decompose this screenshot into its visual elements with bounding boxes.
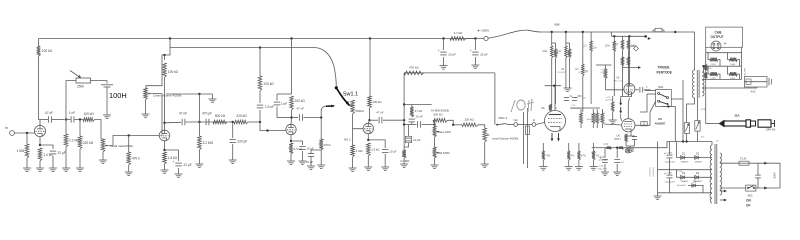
resistor cluster low2 <box>627 57 629 66</box>
capacitor 1n 63V b <box>572 95 582 100</box>
label U6 ANODE <box>658 117 662 121</box>
diode D2 <box>695 152 703 163</box>
terminal heater 1 <box>724 190 727 193</box>
label cab r1 <box>711 64 717 66</box>
wire bus to term <box>466 38 484 40</box>
wire clean wiper right <box>154 94 162 136</box>
node sw3 bottom <box>667 105 669 107</box>
wire lead to switch curve <box>321 106 330 118</box>
label C cap2 <box>599 160 609 162</box>
svg-text:+ C13B: + C13B <box>665 173 673 175</box>
potentiometer 250k box <box>70 71 91 89</box>
ground psu extra <box>609 120 617 124</box>
ground NFB <box>400 164 408 168</box>
diode D3 <box>681 172 689 183</box>
resistor cab 1 <box>710 58 718 62</box>
svg-text:100 kΩ: 100 kΩ <box>83 112 94 116</box>
label psu rot1 <box>650 166 652 176</box>
wire in to U5 grid <box>536 123 545 125</box>
wire cab rail1 <box>706 52 742 54</box>
svg-text:C13: C13 <box>582 46 587 48</box>
wire mini rail 65 <box>596 64 612 66</box>
wire U5 plate up <box>554 86 556 111</box>
wire clean pot gnd <box>145 100 147 115</box>
wire chain7 bot <box>613 52 615 96</box>
svg-text:PIN 1,2,3: PIN 1,2,3 <box>614 80 623 82</box>
svg-text:220k: 220k <box>613 44 619 46</box>
fuse F1 <box>739 158 749 166</box>
svg-text:+ C13A: + C13A <box>665 152 673 155</box>
wire 220pF drop <box>232 122 234 138</box>
wire U6 cathode <box>630 132 632 136</box>
node bus V3 <box>290 37 292 39</box>
wire V4 plate feed <box>369 39 371 97</box>
resistor 2.2M tone <box>198 136 214 150</box>
wire chain pair top <box>552 43 556 46</box>
power subrail <box>612 35 646 37</box>
resistor cab 3 <box>710 72 718 76</box>
wire V2 bypass branch <box>165 150 179 161</box>
wire grid leak drop <box>26 133 28 144</box>
wire chain6 top <box>590 32 592 41</box>
wire out to in <box>518 124 532 126</box>
svg-text:Mid 4/50k: Mid 4/50k <box>438 151 451 155</box>
svg-text:1M: 1M <box>575 69 578 71</box>
resistor U5 aux4 <box>601 113 604 124</box>
wire U6 cath gnd2 <box>634 139 636 146</box>
wire heater tap2 <box>720 199 724 201</box>
label chain6 a <box>582 46 587 48</box>
ground 2.2M tone <box>195 164 203 168</box>
wire OT sec tap1 <box>702 66 706 72</box>
capacitor C13B <box>664 172 673 178</box>
wire 2.2M drop <box>65 120 67 135</box>
label chain7 a <box>605 46 611 48</box>
capacitor 47nF lead couple <box>300 114 303 120</box>
svg-text:47 nF: 47 nF <box>297 107 305 111</box>
wire mains top2 <box>749 163 780 188</box>
node V4 plate <box>368 119 370 121</box>
label U5 top4 <box>571 108 581 110</box>
capacitor 20uF filter1 <box>438 49 456 57</box>
node 470k drop <box>128 134 130 136</box>
svg-text:SW2: SW2 <box>748 196 754 198</box>
wire switch to 500k <box>350 105 353 107</box>
wire cathode res to gnd <box>39 161 41 168</box>
connector XLR J4 <box>711 41 727 51</box>
wire filter1 gnd <box>443 57 445 66</box>
wire cab to aux <box>756 86 758 89</box>
svg-text:UB6: UB6 <box>554 23 560 27</box>
arrows U6 screen <box>619 99 622 114</box>
wire filter cap2 drop <box>474 39 476 51</box>
svg-text:220 kΩ: 220 kΩ <box>83 141 94 145</box>
resistor 1.5k cathode V2 <box>163 152 178 164</box>
wire crossing v2 <box>527 108 529 168</box>
wire subrail drop <box>611 32 613 36</box>
wire PT sec tap1 <box>711 157 712 159</box>
resistor 500k series <box>213 114 227 124</box>
wire U6a grid <box>606 89 624 91</box>
component grid stopper box <box>641 122 647 126</box>
wire U6a cathode <box>621 94 632 99</box>
label cluster mid <box>631 46 637 48</box>
wire rail seg1 <box>52 119 64 121</box>
svg-text:1.5 nF: 1.5 nF <box>265 105 274 109</box>
svg-text:100R: 100R <box>730 78 736 80</box>
resistor cab left b <box>704 73 707 79</box>
svg-text:Bass 4/1M: Bass 4/1M <box>438 130 452 134</box>
heater rail c <box>624 142 713 148</box>
heater rail b <box>612 147 620 149</box>
wire U6a out <box>635 89 639 91</box>
triode V4 <box>363 123 373 133</box>
wire 220pF gnd <box>232 144 234 160</box>
capacitor 1nF bright <box>69 111 75 123</box>
node lead tap <box>320 116 322 118</box>
svg-text:4.7 kΩ: 4.7 kΩ <box>454 31 464 35</box>
wire V1 plate rail <box>40 119 48 121</box>
triode U6a <box>624 84 635 95</box>
wire 47k chain top <box>411 105 413 108</box>
label chain3 b <box>568 53 573 55</box>
wire mains cap dn <box>757 178 759 188</box>
svg-text:OUTPUT: OUTPUT <box>711 35 724 39</box>
wire 2.2M2 drop <box>198 122 200 136</box>
wire lead cap link <box>311 150 321 152</box>
resistor chain8 <box>621 40 623 50</box>
capacitor 22uF cathode bypass <box>50 151 66 155</box>
label +300V <box>481 29 490 33</box>
pentode U5 driver <box>541 106 566 132</box>
clean rail <box>170 47 300 49</box>
svg-text:CAB: CAB <box>715 31 723 35</box>
svg-text:470 k: 470 k <box>324 143 331 147</box>
wire mains bottom2 <box>756 187 780 189</box>
jack Out <box>513 118 518 126</box>
wire V4 plate rail <box>370 119 379 121</box>
capacitor 220pF <box>230 140 248 144</box>
wire chain1 bot <box>551 58 553 108</box>
potentiometer Mid <box>433 147 437 158</box>
wire V4 plate node <box>369 108 371 120</box>
wire NFB rail <box>404 72 495 74</box>
wire 500k down <box>353 114 363 129</box>
box CAB OUTPUT <box>706 27 743 47</box>
wiper lead treble <box>105 145 110 147</box>
wire sw3 bottom tap <box>662 105 675 107</box>
wiper bass <box>436 131 439 133</box>
node V3 cathode <box>290 140 292 142</box>
svg-text:1N4007: 1N4007 <box>681 181 689 183</box>
wire lead cap gnd <box>310 157 312 167</box>
wire crossing v1 <box>523 112 525 164</box>
resistor cab 2 <box>730 58 738 62</box>
node himid <box>452 124 454 126</box>
svg-text:2/2 6N2P: 2/2 6N2P <box>578 72 587 74</box>
svg-text:F1 2A: F1 2A <box>740 158 747 161</box>
node V2 cathode <box>163 149 165 151</box>
wire filter2 gnd <box>474 57 476 65</box>
resistor 1.4k cathode V1 <box>38 148 53 161</box>
wire cluster bottom2 <box>627 66 629 68</box>
jack In return <box>532 118 536 126</box>
label bchain3 <box>581 156 587 158</box>
resistor 220k <box>78 136 94 149</box>
potentiometer Bass 4/1M <box>433 126 437 137</box>
wire arrows to grid <box>621 114 622 121</box>
wire V2 plate load to plate <box>164 78 166 131</box>
switch SW1.2 blade <box>496 124 506 126</box>
wire RC left leg2 <box>276 107 278 118</box>
label mid pot <box>438 151 451 155</box>
wire mid down gnd <box>434 158 436 165</box>
label U6a des <box>616 77 620 80</box>
resistor 100k plate V3 <box>290 96 306 110</box>
svg-text:1 MΩ: 1 MΩ <box>356 149 363 153</box>
label TRIODE <box>658 66 670 70</box>
label chain1 b <box>554 53 560 55</box>
resistor chain5 <box>582 64 584 76</box>
wire 22uF link <box>408 125 410 137</box>
wire rail seg4 <box>95 120 102 140</box>
wire bass down <box>434 137 436 147</box>
svg-text:SPK 4Ω: SPK 4Ω <box>766 128 775 132</box>
capacitor 10uF V4 <box>382 150 397 154</box>
wire PT sec tap3 <box>711 192 712 194</box>
wire sw3 right <box>671 98 683 100</box>
svg-text:250k: 250k <box>77 85 84 89</box>
svg-text:1 MΩ: 1 MΩ <box>16 149 24 153</box>
svg-text:220 pF: 220 pF <box>237 140 247 144</box>
wire cab r4 stub2 <box>738 74 740 79</box>
wire OT primary top <box>694 32 696 70</box>
wire cab r1 stub1 <box>708 53 710 60</box>
label bchain1 <box>545 156 551 158</box>
wire RC bottom <box>277 117 292 119</box>
wire clean rail to 220k <box>259 48 261 76</box>
label chain9 b <box>630 46 636 48</box>
ground lead cap <box>307 166 315 170</box>
wire leadvol gnd <box>484 142 486 164</box>
svg-text:U6: U6 <box>658 117 662 121</box>
svg-text:2.2 MΩ: 2.2 MΩ <box>400 159 409 163</box>
wire cab r2 stub1 <box>728 53 730 60</box>
wire C13A col <box>669 142 671 155</box>
label SPK <box>766 128 775 132</box>
resistor 1M grid leak <box>16 144 28 158</box>
svg-text:C12: C12 <box>557 51 562 53</box>
svg-text:220 kΩ: 220 kΩ <box>264 82 275 86</box>
terminal mains L <box>764 162 767 165</box>
resistor 100k series <box>83 112 95 121</box>
svg-text:470 k: 470 k <box>132 157 140 161</box>
wire input to grid <box>14 132 34 134</box>
ground 4n7 <box>613 172 621 176</box>
node bus V4 <box>369 37 371 39</box>
terminal mains N <box>764 187 767 190</box>
wiper clean volume <box>148 93 154 95</box>
ground bchain4 <box>590 167 598 171</box>
wire U5 aux1 up <box>580 109 582 113</box>
wire chain5 bot <box>582 76 584 112</box>
wire V4 bypass gnd <box>384 154 386 167</box>
svg-text:ON: ON <box>746 199 751 203</box>
wire psu left col <box>657 142 659 197</box>
wire treble top <box>101 138 103 140</box>
wire V2 plate chain top <box>165 48 171 55</box>
wire cathode to bypass cap <box>40 145 53 149</box>
svg-text:22 µF: 22 µF <box>184 163 192 167</box>
label UB6 <box>554 23 560 27</box>
svg-text:6,3V: 6,3V <box>592 153 597 155</box>
svg-text:470k: 470k <box>581 156 587 158</box>
node NFB top rail <box>403 103 405 105</box>
wire U5 mid rail <box>570 107 600 109</box>
wire chain4 bot <box>569 58 571 88</box>
svg-text:470 pF: 470 pF <box>202 112 212 116</box>
label 100H <box>109 91 127 100</box>
resistor fx small <box>549 105 552 112</box>
svg-text:+ C14: + C14 <box>677 171 684 173</box>
label fx small <box>555 108 558 110</box>
label C13A2 <box>665 162 676 164</box>
node tone 2 <box>232 121 234 123</box>
svg-text:J4: J4 <box>724 42 727 46</box>
wire PT top <box>711 142 713 146</box>
label U5 des <box>561 68 565 71</box>
resistor 220k series <box>234 114 248 124</box>
wire V3 cath gnd <box>290 154 292 161</box>
wire chain7 top <box>613 36 615 41</box>
wiper lead volume <box>487 134 490 136</box>
wire bass link <box>434 125 436 127</box>
ground filter1 <box>440 66 448 70</box>
wire chain8 top <box>622 36 624 40</box>
ground V4 bypass <box>381 167 389 171</box>
wire chain9 bot <box>627 50 629 96</box>
wire V3 plate <box>290 118 293 125</box>
wire bchain1 bot <box>542 160 544 167</box>
label bchain2 <box>571 156 576 158</box>
wire sw left stub <box>645 90 656 92</box>
wire bus to V3 net <box>291 39 293 95</box>
ground U6 cathode <box>626 149 634 153</box>
node V2 plate rail <box>163 122 165 124</box>
resistor chain2 <box>554 49 556 58</box>
wire bchain2 bot <box>568 160 570 167</box>
capacitor mains <box>755 175 761 178</box>
svg-text:Sw1.1: Sw1.1 <box>343 92 358 98</box>
svg-text:22 µF: 22 µF <box>58 151 66 155</box>
svg-text:100µ/400V: 100µ/400V <box>665 162 676 164</box>
svg-text:100 kΩ: 100 kΩ <box>42 49 53 53</box>
label psu rot2 <box>653 166 655 176</box>
resistor 470k NFB <box>404 66 424 75</box>
wire psu extra dn <box>612 112 614 120</box>
svg-text:TRIODE: TRIODE <box>658 66 670 70</box>
node tone upper <box>198 93 200 95</box>
resistor chain7 <box>613 41 615 52</box>
wire bchain3 bot <box>578 160 580 167</box>
ground clean pot <box>142 114 150 118</box>
label U5b des2 <box>578 72 587 74</box>
resistor 470k grid leak V2 <box>127 152 140 165</box>
ground 470k <box>125 172 133 176</box>
wire pot to choke <box>91 81 108 84</box>
resistor 100k plate load V1 <box>37 46 53 56</box>
wire bchain4 top <box>593 143 595 151</box>
svg-text:100 kΩ: 100 kΩ <box>373 100 382 104</box>
svg-text:47 nF: 47 nF <box>45 111 53 115</box>
svg-text:+: + <box>600 157 602 161</box>
svg-text:Out: Out <box>513 118 518 122</box>
wire lead tap down <box>320 118 322 140</box>
wire heater drop2 <box>616 148 618 158</box>
wire plate load to plate <box>39 56 41 120</box>
wire 1.5nF to rail <box>259 110 261 122</box>
svg-text:220k: 220k <box>542 51 548 53</box>
svg-text:In: In <box>5 126 8 130</box>
node pots <box>433 123 435 125</box>
triode V1 <box>34 125 45 136</box>
wire V4 cath gnd <box>367 156 369 167</box>
capacitor 22uF box outline <box>405 136 420 142</box>
wire NFB col <box>403 73 405 150</box>
svg-text:100 kΩ: 100 kΩ <box>168 70 179 74</box>
resistor hi-mid pot <box>433 119 448 123</box>
ground tone stack top <box>209 99 217 103</box>
wire 1M V4 gnd <box>352 157 354 168</box>
wire U6 cath link2 <box>631 135 635 138</box>
component box on v2 <box>526 126 530 135</box>
ground bchain2 <box>565 167 573 171</box>
wire tone upper drop <box>198 94 200 122</box>
wire 470k gnd <box>128 165 130 172</box>
label chain6 b <box>593 48 598 50</box>
resistor bchain4 <box>592 151 595 160</box>
svg-text:1.9 kΩ: 1.9 kΩ <box>371 148 379 152</box>
svg-text:J3A: J3A <box>734 114 740 118</box>
svg-text:+300V: +300V <box>481 29 490 33</box>
ground lead leak <box>317 165 325 169</box>
ground 220k <box>76 168 84 172</box>
node grid V1 <box>26 132 28 134</box>
resistor cathode V3 <box>289 143 302 154</box>
label chain1 a <box>542 51 548 53</box>
wire RC right leg <box>291 110 293 118</box>
svg-text:AUX: AUX <box>751 91 756 94</box>
wire psu extra up <box>612 96 614 102</box>
svg-text:20 µF: 20 µF <box>448 53 456 57</box>
node OT tap <box>702 65 704 67</box>
transformer OT secondary <box>702 72 704 96</box>
resistor U5 aux2 <box>592 113 595 124</box>
capacitor series pots <box>418 121 421 127</box>
wire diode row2 left <box>676 170 678 178</box>
transformer PT primary <box>720 153 722 195</box>
wire V2 cathode <box>164 141 166 150</box>
svg-text:+C7A: +C7A <box>598 165 604 168</box>
svg-text:1N4007: 1N4007 <box>695 161 703 163</box>
wire top bus left vertical <box>38 39 40 47</box>
input jack J1 <box>10 131 15 136</box>
capacitor 22nF <box>409 115 423 122</box>
wire sw to out jack <box>507 124 514 126</box>
wire top rail pots <box>404 104 432 106</box>
wire 22uF down <box>404 143 408 147</box>
node supply filter2 <box>474 37 476 39</box>
